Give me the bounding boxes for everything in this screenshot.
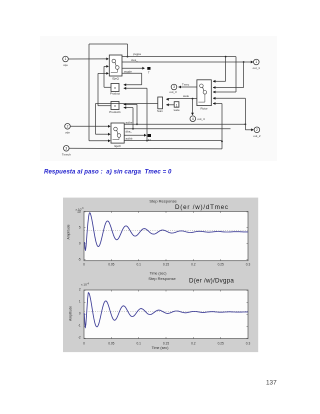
- svg-text:Amplitude: Amplitude: [67, 224, 71, 239]
- input port 1 (vqe): [63, 56, 69, 67]
- wire: EjeD out4 acibb long line: [124, 137, 222, 141]
- svg-text:3: 3: [173, 85, 175, 89]
- plot 2 response curve: [84, 293, 248, 328]
- svg-text:2: 2: [256, 128, 258, 132]
- svg-text:wele: wele: [174, 108, 180, 112]
- svg-text:0: 0: [79, 242, 81, 246]
- svg-text:137: 137: [266, 379, 277, 386]
- plot 2 tick marks: [84, 290, 248, 339]
- wire: Sum output to EjeD input2: [96, 104, 158, 136]
- svg-text:dba_: dba_: [126, 129, 133, 133]
- svg-text:Sum: Sum: [157, 109, 164, 113]
- plot 2 axes box: [84, 290, 248, 339]
- svg-text:vde: vde: [65, 130, 70, 134]
- plot 1 tick marks: [84, 211, 248, 260]
- plot 2 steady-state dotted line: [84, 310, 247, 312]
- figure gray background: [63, 198, 258, 353]
- svg-text:EjeD: EjeD: [114, 144, 120, 148]
- svg-text:x: x: [114, 104, 116, 108]
- wire: Product1 input1 from acibe line: [124, 103, 138, 125]
- wire: rotor left output wele to Sum input1 and out_4: [166, 94, 197, 115]
- wire: pvgpa branch to rotor input1: [213, 56, 227, 83]
- svg-text:0.15: 0.15: [163, 341, 169, 345]
- svg-text:EjeQ: EjeQ: [112, 77, 119, 81]
- svg-text:3: 3: [65, 146, 67, 150]
- svg-text:pvgpa: pvgpa: [133, 52, 141, 56]
- svg-text:0.05: 0.05: [108, 262, 114, 266]
- svg-text:-1: -1: [78, 323, 81, 327]
- plot 1 x tick labels: [83, 262, 250, 266]
- wire: rotor input3 stub: [213, 91, 236, 94]
- wire: EjeQ out3 to terminator T: [122, 67, 145, 70]
- svg-text:Step Response: Step Response: [149, 199, 177, 204]
- svg-text:wele: wele: [183, 94, 189, 98]
- svg-text:out_4: out_4: [197, 117, 205, 121]
- svg-text:Time (sec): Time (sec): [152, 346, 169, 350]
- svg-text:0.25: 0.25: [218, 341, 224, 345]
- svg-text:Tmec: Tmec: [182, 83, 190, 87]
- svg-text:1: 1: [255, 60, 257, 64]
- wire: EjeQ out pvgpa long line: [122, 52, 236, 92]
- wire: pvgpa feedback top line: [89, 44, 128, 141]
- svg-text:-5: -5: [78, 258, 81, 262]
- svg-text:0: 0: [83, 341, 85, 345]
- svg-text:-2: -2: [78, 335, 81, 339]
- wire: EjeD out dba long line: [124, 129, 230, 134]
- wire: cies branch to rotor input2: [213, 61, 245, 89]
- svg-text:vqe: vqe: [63, 63, 68, 67]
- svg-text:1: 1: [176, 103, 178, 107]
- svg-text:Respuesta al paso : a) sin ca: Respuesta al paso : a) sin carga Tmec = …: [44, 169, 172, 175]
- svg-text:0: 0: [83, 262, 85, 266]
- svg-text:Step Response: Step Response: [148, 276, 176, 281]
- plot 1 axes box: [84, 211, 248, 260]
- svg-text:Product: Product: [110, 92, 120, 96]
- svg-text:1: 1: [65, 57, 67, 61]
- terminator F1: [148, 134, 152, 142]
- svg-text:D(er /w)/dTmec: D(er /w)/dTmec: [175, 204, 229, 211]
- plot 1 steady-state dotted line: [84, 230, 247, 232]
- svg-text:0.15: 0.15: [163, 262, 169, 266]
- wire: rotor left output to out_3, label Tmec: [178, 83, 197, 89]
- svg-text:Amplitude: Amplitude: [69, 306, 73, 321]
- svg-text:out_3: out_3: [169, 90, 177, 94]
- svg-text:2: 2: [79, 287, 81, 291]
- svg-text:4: 4: [192, 117, 194, 121]
- wire: Product1 input2 from dba line: [124, 106, 134, 130]
- block Product1: [109, 102, 121, 114]
- output port out_3: [169, 84, 177, 94]
- plot 1 response curve: [85, 213, 248, 251]
- svg-text:Product1: Product1: [109, 110, 121, 114]
- input port 3 (Tmech): [62, 146, 71, 157]
- svg-text:acibe: acibe: [126, 120, 133, 124]
- wire: EjeD out3 to terminator F1: [124, 134, 146, 137]
- wire: EjeQ out avgde down to Product input1: [122, 70, 142, 87]
- subsystem block Rotor: [197, 80, 211, 111]
- wire: EjeQ out cies to out_1: [122, 58, 253, 63]
- output port out_2: [253, 127, 261, 138]
- svg-text:0.2: 0.2: [191, 262, 196, 266]
- wire: EjeD out acibe long line to out_2: [124, 120, 246, 125]
- svg-text:0.05: 0.05: [108, 341, 114, 345]
- block Product: [110, 84, 120, 96]
- wire: Product input2 from EjeD out4 vertical: [124, 87, 148, 142]
- wire: vertical feed to out_2 and rotor input4: [213, 97, 254, 131]
- svg-text:5: 5: [79, 226, 81, 230]
- block wele (constant): [174, 102, 180, 113]
- plot 2 x tick labels: [83, 341, 250, 345]
- svg-text:D(er /w)/Dvgpa: D(er /w)/Dvgpa: [189, 278, 234, 285]
- subsystem block EjeQ: [109, 55, 122, 81]
- svg-text:0.3: 0.3: [246, 341, 251, 345]
- wire: Product1 output to EjeQ input3: [98, 72, 111, 106]
- svg-text:0.3: 0.3: [246, 262, 251, 266]
- svg-text:Rotor: Rotor: [201, 106, 208, 110]
- svg-text:cies_: cies_: [131, 58, 138, 62]
- wire: port3 Tmech long line to rotor input5: [69, 102, 223, 149]
- svg-text:0: 0: [79, 311, 81, 315]
- svg-text:acibb: acibb: [126, 137, 133, 141]
- svg-text:x: x: [114, 86, 116, 90]
- svg-text:0.1: 0.1: [136, 341, 141, 345]
- diagram canvas background: [40, 36, 277, 161]
- wire: port2 vde to EjeD input1: [70, 125, 110, 128]
- svg-text:10: 10: [77, 210, 81, 214]
- svg-text:T: T: [148, 71, 150, 75]
- subsystem block EjeD: [111, 123, 124, 148]
- svg-text:out_2: out_2: [253, 134, 261, 138]
- svg-text:F1: F1: [148, 138, 152, 142]
- wire: wele block to Sum input2: [166, 103, 174, 106]
- terminator T: [147, 67, 150, 75]
- wire: Product output to EjeQ input2: [104, 65, 111, 87]
- plot 1 y tick labels: [77, 210, 81, 262]
- svg-text:Tmech: Tmech: [62, 152, 71, 156]
- output port out_4: [190, 116, 205, 122]
- block Sum: [157, 97, 164, 113]
- svg-text:0.1: 0.1: [136, 262, 141, 266]
- svg-text:1: 1: [79, 299, 81, 303]
- svg-text:0.25: 0.25: [218, 262, 224, 266]
- wire: EjeD input3 from feedback: [89, 139, 111, 142]
- svg-text:0.2: 0.2: [191, 341, 196, 345]
- wire: port1 vqe to EjeQ input1: [68, 58, 109, 61]
- input port 2 (vde): [65, 124, 71, 135]
- output port out_1: [253, 59, 261, 70]
- svg-text:out_1: out_1: [253, 66, 261, 70]
- plot 2 y tick labels: [78, 287, 81, 339]
- svg-text:2: 2: [67, 124, 69, 128]
